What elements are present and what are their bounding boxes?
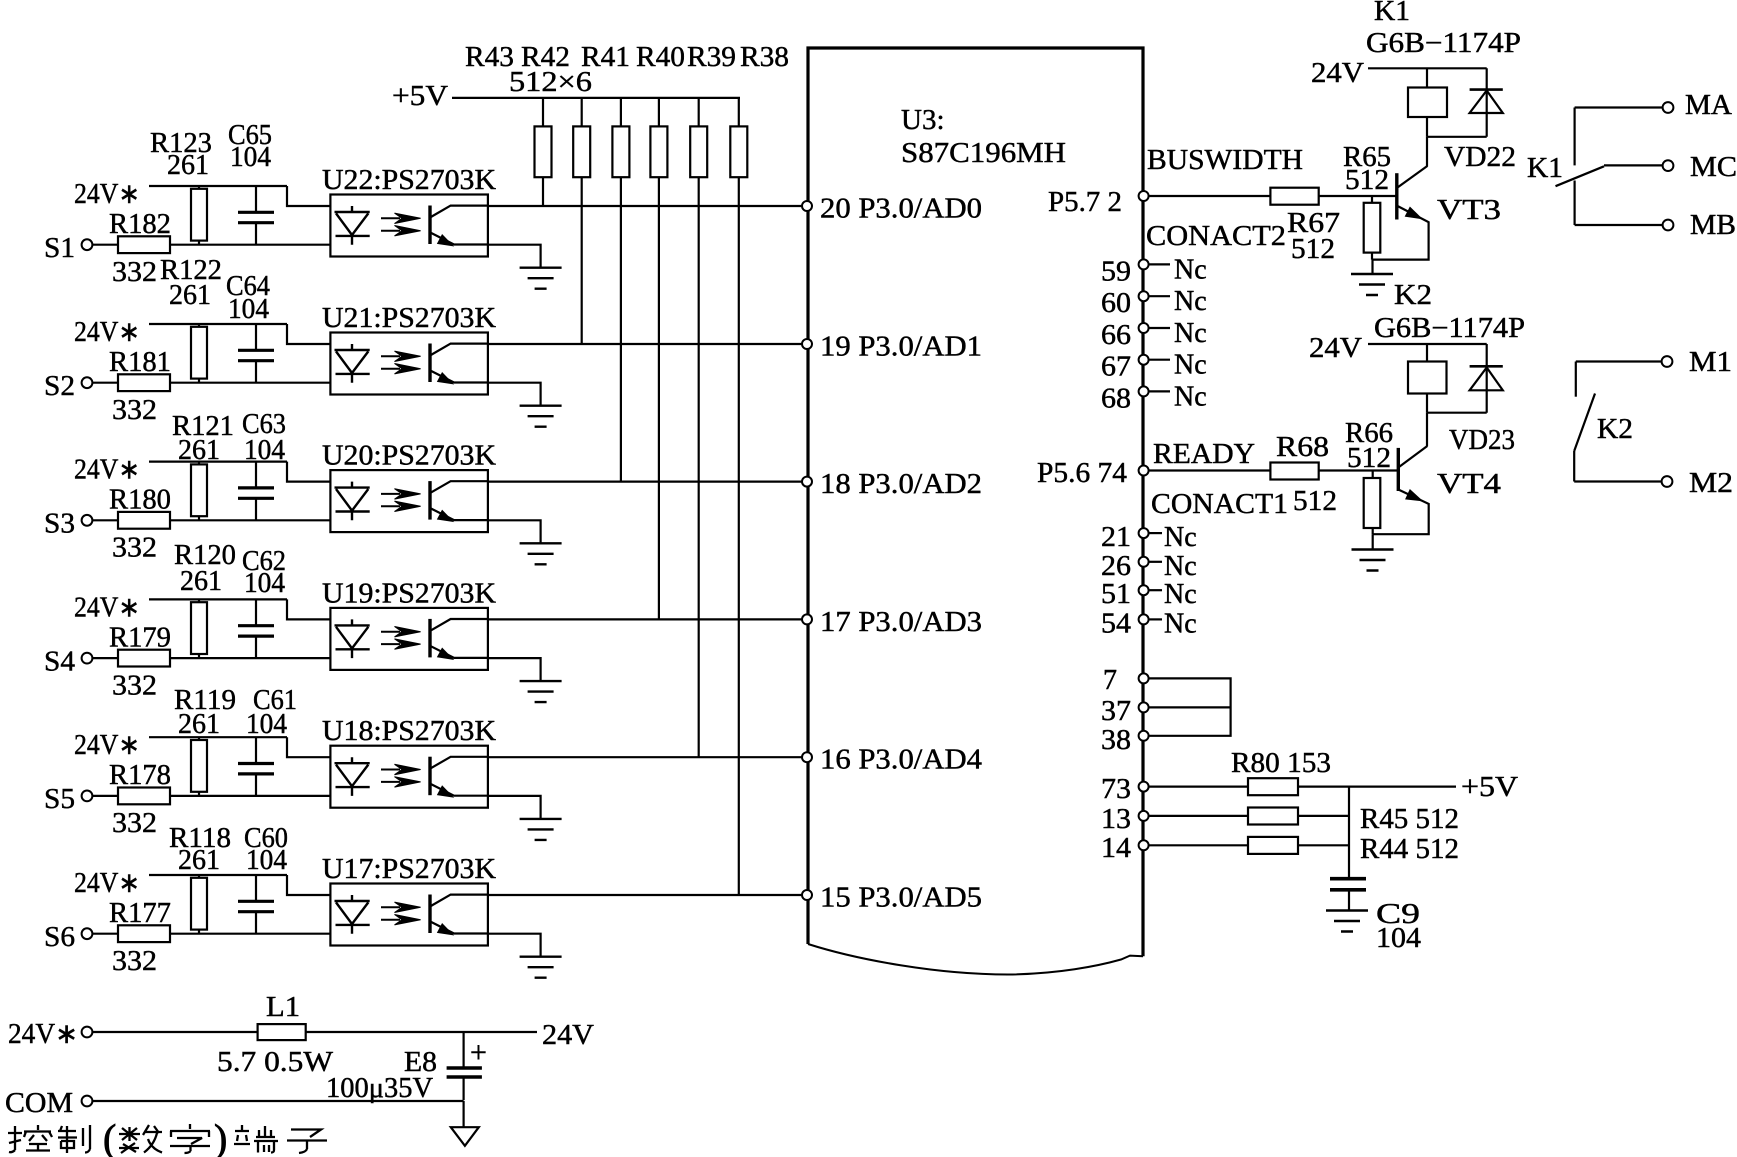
svg-text:K2: K2: [1394, 280, 1432, 311]
op-amp U3 S87C196MH microcontroller body: [808, 48, 1143, 975]
node P5.6 pin 74 READY: [1037, 439, 1288, 520]
relay contact K1 (MA/MC/MB): [1527, 108, 1604, 226]
capacitor C62 104: [238, 546, 286, 658]
svg-text:104: 104: [246, 845, 287, 876]
svg-text:R43: R43: [465, 41, 514, 73]
svg-text:Nc: Nc: [1174, 350, 1207, 381]
svg-text:19 P3.0/AD1: 19 P3.0/AD1: [820, 332, 982, 363]
wire R43 bottom to P3.0/AD0 net: [542, 177, 544, 206]
capacitor C63 104: [238, 409, 286, 520]
svg-text:332: 332: [112, 257, 157, 288]
svg-text:261: 261: [178, 435, 220, 466]
resistor R180 332: [92, 485, 330, 564]
resistor R42 512: [573, 98, 590, 177]
capacitor C64 104: [226, 271, 274, 383]
diode LED inside U18: [335, 757, 370, 796]
wire 24V* step into opto U17 anode: [287, 875, 330, 895]
op-amp U19 PS2703K optocoupler: [322, 578, 496, 670]
svg-text:512: 512: [1345, 165, 1389, 196]
node S2 input terminal: [44, 371, 92, 402]
svg-text:54: 54: [1101, 608, 1131, 639]
node pin circle 67: [1139, 355, 1149, 365]
resistor R41 512: [612, 98, 629, 177]
resistor R181 332: [92, 347, 330, 426]
svg-text:R80 153: R80 153: [1231, 748, 1331, 779]
wire R40 bottom to P3.0/AD3 net: [658, 177, 660, 619]
light arrows inside U19: [381, 627, 421, 650]
light arrows inside U20: [381, 489, 421, 512]
svg-text:15 P3.0/AD5: 15 P3.0/AD5: [820, 883, 982, 914]
svg-text:332: 332: [112, 533, 157, 564]
svg-text:104: 104: [244, 435, 285, 466]
svg-text:332: 332: [112, 670, 157, 701]
resistor R68 512: [1270, 432, 1398, 517]
svg-text:MB: MB: [1690, 210, 1736, 241]
ground (VT3 emitter): [1351, 260, 1393, 295]
svg-text:16 P3.0/AD4: 16 P3.0/AD4: [820, 745, 982, 776]
light arrows inside U18: [381, 764, 421, 787]
svg-text:37: 37: [1101, 696, 1131, 727]
node MA terminal: [1575, 90, 1733, 121]
resistor R44 512: [1149, 834, 1460, 865]
node pin circle 59: [1139, 259, 1149, 269]
svg-text:24V∗: 24V∗: [74, 868, 140, 899]
24V* supply node (stage S5): [74, 730, 287, 761]
svg-text:U18:PS2703K: U18:PS2703K: [322, 716, 496, 747]
op-amp U18 PS2703K optocoupler: [322, 716, 496, 808]
node pin circle AD3 on U3: [802, 614, 812, 624]
capacitor E8 100u35V electrolytic: [326, 1032, 487, 1104]
svg-text:24V∗: 24V∗: [74, 730, 140, 761]
op-amp U22 PS2703K optocoupler: [322, 165, 496, 257]
node pin circle P5.6: [1139, 466, 1149, 476]
ground (C9): [1326, 911, 1368, 932]
svg-text:U21:PS2703K: U21:PS2703K: [322, 303, 496, 334]
relay K2 G6B-1174P labels: [1374, 280, 1525, 344]
wire R42 bottom to P3.0/AD1 net: [581, 177, 583, 344]
svg-text:18 P3.0/AD2: 18 P3.0/AD2: [820, 469, 982, 500]
svg-text:512: 512: [1293, 486, 1337, 517]
op-amp U17 PS2703K optocoupler: [322, 854, 496, 946]
ground (stage S3): [520, 543, 562, 564]
node pin circle AD2 on U3: [802, 477, 812, 487]
svg-text:261: 261: [167, 150, 209, 181]
node pin 68 Nc: [1101, 381, 1207, 414]
svg-text:U22:PS2703K: U22:PS2703K: [322, 165, 496, 196]
node S4 input terminal: [44, 646, 92, 677]
node MC terminal: [1604, 152, 1737, 183]
svg-text:S5: S5: [44, 784, 75, 815]
node S6 input terminal: [44, 922, 92, 953]
diode VD23: [1449, 344, 1515, 456]
svg-text:Nc: Nc: [1164, 551, 1197, 582]
svg-text:VT3: VT3: [1437, 195, 1501, 226]
svg-text:READY: READY: [1153, 439, 1255, 470]
svg-text:G6B−1174P: G6B−1174P: [1366, 28, 1521, 59]
resistor R123 261: [150, 128, 212, 245]
resistor R122 261: [160, 255, 222, 383]
wire U22 emitter to ground: [488, 245, 541, 268]
node pin circle 60: [1139, 291, 1149, 301]
node pin circle P5.7: [1139, 191, 1149, 201]
svg-text:+5V: +5V: [392, 80, 448, 112]
svg-text:67: 67: [1101, 352, 1131, 383]
svg-text:K1: K1: [1374, 0, 1410, 27]
transistor photodetector inside U17: [430, 895, 488, 935]
node pin 51 Nc: [1101, 579, 1197, 610]
wire coil bottom to VD22: [1427, 136, 1487, 138]
svg-text:S1: S1: [44, 233, 75, 264]
svg-text:P5.7 2: P5.7 2: [1048, 187, 1122, 218]
node M2 terminal: [1574, 468, 1733, 499]
svg-text:R45 512: R45 512: [1360, 804, 1459, 835]
svg-text:24V: 24V: [542, 1020, 594, 1051]
resistor R65 512: [1343, 142, 1391, 260]
svg-text:VD23: VD23: [1449, 425, 1515, 456]
svg-text:G6B−1174P: G6B−1174P: [1374, 313, 1525, 344]
resistor R38 512: [730, 98, 747, 177]
svg-text:24V∗: 24V∗: [74, 455, 140, 486]
svg-text:R38: R38: [740, 41, 789, 73]
24V* supply node (stage S4): [74, 592, 287, 623]
node pin circle (73/13/14): [1139, 840, 1149, 850]
diode LED inside U22: [335, 206, 370, 245]
wire 24V* step into opto U21 anode: [287, 324, 330, 344]
resistor R121 261: [172, 411, 234, 520]
node COM terminal: [5, 1088, 464, 1119]
svg-text:261: 261: [180, 566, 222, 597]
node caption: control (digital) terminals: [8, 1116, 327, 1157]
24V* supply node (stage S6): [74, 868, 287, 899]
ground (stage S2): [520, 406, 562, 427]
node pin 26 Nc: [1101, 551, 1197, 582]
transistor VT3: [1372, 137, 1501, 260]
ground (earth triangle below E8): [451, 1101, 479, 1146]
diode LED inside U20: [335, 482, 370, 521]
svg-text:R40: R40: [636, 41, 685, 73]
wire P5.6 to R68: [1143, 469, 1270, 471]
wire 24V* step into opto U22 anode: [287, 186, 330, 206]
transistor photodetector inside U22: [430, 206, 488, 246]
svg-text:104: 104: [246, 709, 287, 740]
resistor R80 153: [1149, 748, 1457, 795]
svg-text:Nc: Nc: [1164, 579, 1197, 610]
svg-text:Nc: Nc: [1174, 318, 1207, 349]
node 24V* bottom terminal: [8, 1019, 258, 1050]
node pin circle 21: [1139, 528, 1149, 538]
node pin circle (7/37/38): [1139, 731, 1149, 741]
diode LED inside U21: [335, 344, 370, 383]
relay contact K2 (M1/M2): [1574, 362, 1633, 482]
node 24V (K1): [1311, 58, 1487, 89]
node S1 input terminal: [44, 233, 92, 264]
svg-text:Nc: Nc: [1174, 286, 1207, 317]
svg-text:332: 332: [112, 395, 157, 426]
svg-text:M2: M2: [1689, 468, 1733, 499]
svg-text:MA: MA: [1685, 90, 1733, 121]
light arrows inside U22: [381, 213, 421, 236]
node pin circle AD1 on U3: [802, 339, 812, 349]
svg-text:COM: COM: [5, 1088, 73, 1119]
svg-text:S6: S6: [44, 922, 75, 953]
resistor R67 512: [1270, 188, 1396, 265]
resistor R66 512: [1345, 418, 1393, 534]
svg-text:38: 38: [1101, 725, 1131, 756]
svg-text:U19:PS2703K: U19:PS2703K: [322, 578, 496, 609]
svg-text:24V: 24V: [1309, 333, 1362, 364]
wire U19 collector to pin P3.0/AD3: [488, 618, 803, 620]
svg-text:CONACT1: CONACT1: [1151, 489, 1288, 520]
svg-text:R44 512: R44 512: [1360, 834, 1459, 865]
wire 24V* step into opto U18 anode: [287, 737, 330, 757]
svg-text:S4: S4: [44, 646, 75, 677]
node pin circle (7/37/38): [1139, 702, 1149, 712]
svg-text:VT4: VT4: [1437, 469, 1501, 500]
resistor R120 261: [174, 540, 236, 658]
light arrows inside U17: [381, 902, 421, 925]
resistor R119 261: [174, 685, 236, 796]
node MB terminal: [1575, 210, 1736, 241]
ground (stage S6): [520, 957, 562, 978]
svg-text:73: 73: [1101, 774, 1131, 805]
wire U20 collector to pin P3.0/AD2: [488, 481, 803, 483]
wire U19 emitter to ground: [488, 658, 541, 681]
svg-text:14: 14: [1101, 833, 1131, 864]
svg-text:Nc: Nc: [1174, 254, 1207, 285]
op-amp U21 PS2703K optocoupler: [322, 303, 496, 395]
resistor R182 332: [92, 209, 330, 288]
resistor R177 332: [92, 898, 330, 977]
wire U20 emitter to ground: [488, 520, 541, 543]
wire R39 bottom to P3.0/AD4 net: [698, 177, 700, 757]
diode LED inside U17: [335, 895, 370, 934]
node pin circle (73/13/14): [1139, 811, 1149, 821]
capacitor C9 104: [1330, 879, 1421, 954]
svg-text:R39: R39: [687, 41, 736, 73]
wire L1 to 24V: [306, 1031, 537, 1033]
svg-text:21: 21: [1101, 522, 1131, 553]
svg-text:MC: MC: [1690, 152, 1737, 183]
node pin circle 51: [1139, 585, 1149, 595]
node pin 21 Nc: [1101, 522, 1197, 553]
svg-text:CONACT2: CONACT2: [1146, 221, 1286, 252]
svg-text:332: 332: [112, 808, 157, 839]
svg-text:K2: K2: [1597, 414, 1633, 445]
24V* supply node (stage S3): [74, 455, 287, 486]
svg-text:261: 261: [178, 709, 220, 740]
node pin circle 54: [1139, 614, 1149, 624]
transistor photodetector inside U20: [430, 481, 488, 521]
node pin circle 68: [1139, 386, 1149, 396]
relay K2 coil: [1408, 344, 1447, 413]
wire U21 emitter to ground: [488, 383, 541, 406]
transistor photodetector inside U18: [430, 757, 488, 797]
svg-text:24V∗: 24V∗: [74, 317, 140, 348]
svg-text:Nc: Nc: [1174, 381, 1207, 412]
24V* supply node (stage S2): [74, 317, 287, 348]
node pin circle AD5 on U3: [802, 890, 812, 900]
resistor R39 512: [690, 98, 707, 177]
diode VD22: [1444, 68, 1516, 173]
wire U17 emitter to ground: [488, 934, 541, 957]
wire U18 collector to pin P3.0/AD4: [488, 756, 803, 758]
svg-text:+: +: [470, 1036, 487, 1069]
svg-text:100μ35V: 100μ35V: [326, 1073, 433, 1104]
node pins 7 37 38 jumper block: [1101, 665, 1231, 756]
node P5.7 pin 2 BUSWIDTH: [1048, 145, 1303, 252]
node pin circle 26: [1139, 557, 1149, 567]
svg-text:512: 512: [1347, 443, 1391, 474]
resistor R178 332: [92, 760, 330, 839]
svg-text:332: 332: [112, 946, 157, 977]
svg-text:20 P3.0/AD0: 20 P3.0/AD0: [820, 194, 982, 225]
light arrows inside U21: [381, 351, 421, 374]
node M1 terminal: [1576, 347, 1732, 378]
relay K1 coil: [1408, 68, 1447, 137]
node pin circle AD4 on U3: [802, 752, 812, 762]
node S5 input terminal: [44, 784, 92, 815]
node pin 60 Nc: [1101, 286, 1207, 319]
diode LED inside U19: [335, 619, 370, 658]
resistor R179 332: [92, 622, 330, 701]
inductor L1 5.7 0.5W: [217, 992, 334, 1078]
svg-text:104: 104: [228, 294, 269, 325]
ground (VT4 emitter): [1352, 534, 1394, 570]
svg-text:L1: L1: [266, 992, 300, 1023]
wire U22 collector to pin P3.0/AD0: [488, 205, 803, 207]
svg-text:VD22: VD22: [1444, 142, 1516, 173]
capacitor C65 104: [228, 120, 274, 245]
resistor R40 512: [650, 98, 667, 177]
svg-text:Nc: Nc: [1164, 608, 1197, 639]
wire 24V* step into opto U20 anode: [287, 462, 330, 482]
node pin 54 Nc: [1101, 608, 1197, 639]
svg-text:Nc: Nc: [1164, 522, 1197, 553]
capacitor C60 104: [238, 823, 288, 934]
svg-text:): ): [214, 1116, 227, 1157]
wire P5.7 to R67: [1143, 195, 1270, 197]
node pin circle (73/13/14): [1139, 782, 1149, 792]
svg-text:7: 7: [1103, 665, 1117, 696]
svg-text:26: 26: [1101, 551, 1131, 582]
wire 24V* step into opto U19 anode: [287, 599, 330, 619]
capacitor C61 104: [238, 685, 297, 796]
node pin 66 Nc: [1101, 318, 1207, 351]
wire coil bottom to VD23: [1427, 412, 1487, 414]
transistor photodetector inside U19: [430, 619, 488, 659]
relay K1 G6B-1174P labels: [1366, 0, 1521, 59]
node pin circle (7/37/38): [1139, 673, 1149, 683]
svg-text:104: 104: [244, 568, 285, 599]
svg-text:51: 51: [1101, 579, 1131, 610]
node pins 73 13 14 labels: [1101, 774, 1131, 864]
svg-text:U3:: U3:: [901, 104, 945, 136]
node pin circle AD0 on U3: [802, 201, 812, 211]
transistor photodetector inside U21: [430, 344, 488, 384]
wire R41 bottom to P3.0/AD2 net: [620, 177, 622, 481]
wire U17 collector to pin P3.0/AD5: [488, 894, 803, 896]
svg-text:P5.6 74: P5.6 74: [1037, 458, 1127, 489]
node +5V (top rail): [392, 80, 740, 112]
svg-text:S2: S2: [44, 371, 75, 402]
ground (stage S1): [520, 268, 562, 289]
resistor R45 512: [1149, 804, 1460, 835]
svg-text:K1: K1: [1527, 153, 1563, 184]
svg-text:R68: R68: [1276, 432, 1329, 463]
svg-text:104: 104: [1376, 923, 1421, 954]
svg-text:66: 66: [1101, 320, 1131, 351]
node pin circle 66: [1139, 323, 1149, 333]
24V* supply node (stage S1): [74, 179, 287, 210]
svg-text:104: 104: [230, 142, 271, 173]
node 24V (K2): [1309, 333, 1487, 364]
node pin 67 Nc: [1101, 350, 1207, 383]
svg-text:24V∗: 24V∗: [8, 1019, 78, 1050]
svg-text:13: 13: [1101, 804, 1131, 835]
node pin 59 Nc: [1101, 254, 1207, 287]
svg-text:24V∗: 24V∗: [74, 179, 140, 210]
svg-text:U20:PS2703K: U20:PS2703K: [322, 441, 496, 472]
svg-text:60: 60: [1101, 288, 1131, 319]
wire R38 bottom to P3.0/AD5 net: [738, 177, 740, 895]
svg-text:M1: M1: [1689, 347, 1732, 378]
resistor R43 512: [535, 98, 552, 177]
svg-text:59: 59: [1101, 256, 1131, 287]
svg-text:BUSWIDTH: BUSWIDTH: [1147, 145, 1303, 176]
svg-text:261: 261: [169, 280, 211, 311]
svg-text:5.7 0.5W: 5.7 0.5W: [217, 1047, 334, 1078]
svg-text:+5V: +5V: [1461, 772, 1518, 803]
wire U21 collector to pin P3.0/AD1: [488, 343, 803, 345]
wire U18 emitter to ground: [488, 796, 541, 819]
wire junction +5V rail down to C9: [1348, 787, 1350, 877]
svg-text:17 P3.0/AD3: 17 P3.0/AD3: [820, 607, 982, 638]
ground (stage S4): [520, 681, 562, 702]
svg-text:512×6: 512×6: [509, 66, 592, 98]
ground (stage S5): [520, 819, 562, 840]
resistor R118 261: [169, 823, 231, 934]
svg-text:68: 68: [1101, 383, 1131, 414]
svg-text:U17:PS2703K: U17:PS2703K: [322, 854, 496, 885]
transistor VT4: [1373, 413, 1501, 535]
svg-text:24V: 24V: [1311, 58, 1364, 89]
node S3 input terminal: [44, 509, 92, 540]
svg-text:S3: S3: [44, 509, 75, 540]
op-amp U20 PS2703K optocoupler: [322, 441, 496, 532]
svg-text:24V∗: 24V∗: [74, 592, 140, 623]
svg-text:261: 261: [178, 845, 220, 876]
resistor network labels R43 R42 R41 R40 R39 R38 512x6: [465, 41, 789, 98]
svg-text:S87C196MH: S87C196MH: [901, 137, 1066, 169]
svg-text:(: (: [103, 1116, 116, 1157]
svg-text:512: 512: [1291, 234, 1335, 265]
